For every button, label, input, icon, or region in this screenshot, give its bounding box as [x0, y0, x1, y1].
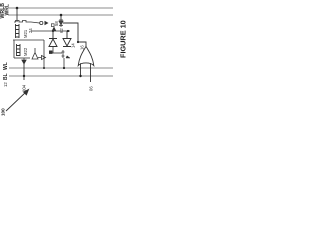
junction dot at diode D1 — [52, 30, 54, 32]
up arrow stub — [52, 27, 56, 31]
small square node — [49, 51, 52, 54]
transistor M1 box top rail with notches — [14, 21, 31, 23]
svg-text:58: 58 — [54, 21, 59, 26]
pull device (diode) at x61 — [59, 20, 63, 27]
junction dot x44 on SWL — [43, 67, 45, 69]
diode D2 down — [63, 31, 71, 47]
bubble on wire — [40, 21, 43, 24]
svg-text:FIGURE 10: FIGURE 10 — [119, 20, 128, 58]
diode D1 up — [49, 31, 57, 47]
node tap on bus WRL — [60, 14, 63, 17]
wire y23 from M1 — [31, 22, 40, 23]
transistor M1 body — [16, 24, 20, 38]
small open square above rail — [51, 24, 54, 27]
svg-text:100: 100 — [1, 108, 6, 116]
junction dot at diode D2 — [67, 30, 69, 32]
wire from WRL down — [60, 15, 62, 20]
svg-text:14: 14 — [71, 43, 76, 48]
rail below M2 — [14, 57, 30, 59]
OR gate U1 pointing up — [78, 46, 94, 65]
svg-text:M22: M22 — [23, 47, 28, 56]
node tap on bus WRLB — [16, 7, 19, 10]
svg-text:12: 12 — [3, 82, 8, 87]
arrowhead right — [45, 21, 49, 25]
wire x44 down to SWL — [43, 40, 45, 68]
arrow to gate — [66, 56, 70, 58]
transistor M2 body — [17, 44, 21, 56]
wire y53 — [52, 52, 62, 54]
svg-text:WRL: WRL — [4, 4, 10, 15]
junction dot at x78 y42 — [77, 41, 79, 43]
junction dot on SWL — [63, 67, 65, 69]
leader arrow 100 — [6, 90, 29, 112]
small device at 63,54 — [62, 50, 65, 58]
gate input left wire — [80, 63, 82, 76]
left rail wire — [13, 40, 15, 58]
wire y31 clamp rail — [31, 30, 70, 32]
bus WRLB (top bus 1) — [8, 7, 113, 9]
svg-text:16: 16 — [80, 45, 85, 50]
junction dot left input on SWLB — [79, 75, 81, 77]
wire from bus WRLB down — [16, 8, 18, 22]
svg-text:06: 06 — [89, 86, 94, 91]
svg-text:BL: BL — [3, 73, 9, 80]
rail below M1 — [13, 39, 44, 41]
bus SWL (bottom bus 1) — [9, 67, 113, 69]
bus SWLB (bottom bus 2) — [9, 75, 113, 77]
gate input right wire — [90, 63, 92, 82]
down arrow onto node wire — [22, 58, 26, 64]
wire gate output path — [63, 23, 86, 46]
junction dot on SWLB — [23, 75, 25, 77]
wire x64 down to SWL — [63, 58, 65, 68]
svg-text:62: 62 — [59, 28, 64, 33]
svg-text:WL: WL — [3, 62, 9, 70]
node wire down to SWLB — [23, 63, 25, 80]
bus WRL (top bus 2) — [8, 14, 113, 16]
wire below D1 — [52, 47, 54, 54]
triangle element right of M2 — [32, 48, 38, 59]
open arrow right — [38, 56, 46, 60]
svg-text:24: 24 — [28, 28, 33, 33]
